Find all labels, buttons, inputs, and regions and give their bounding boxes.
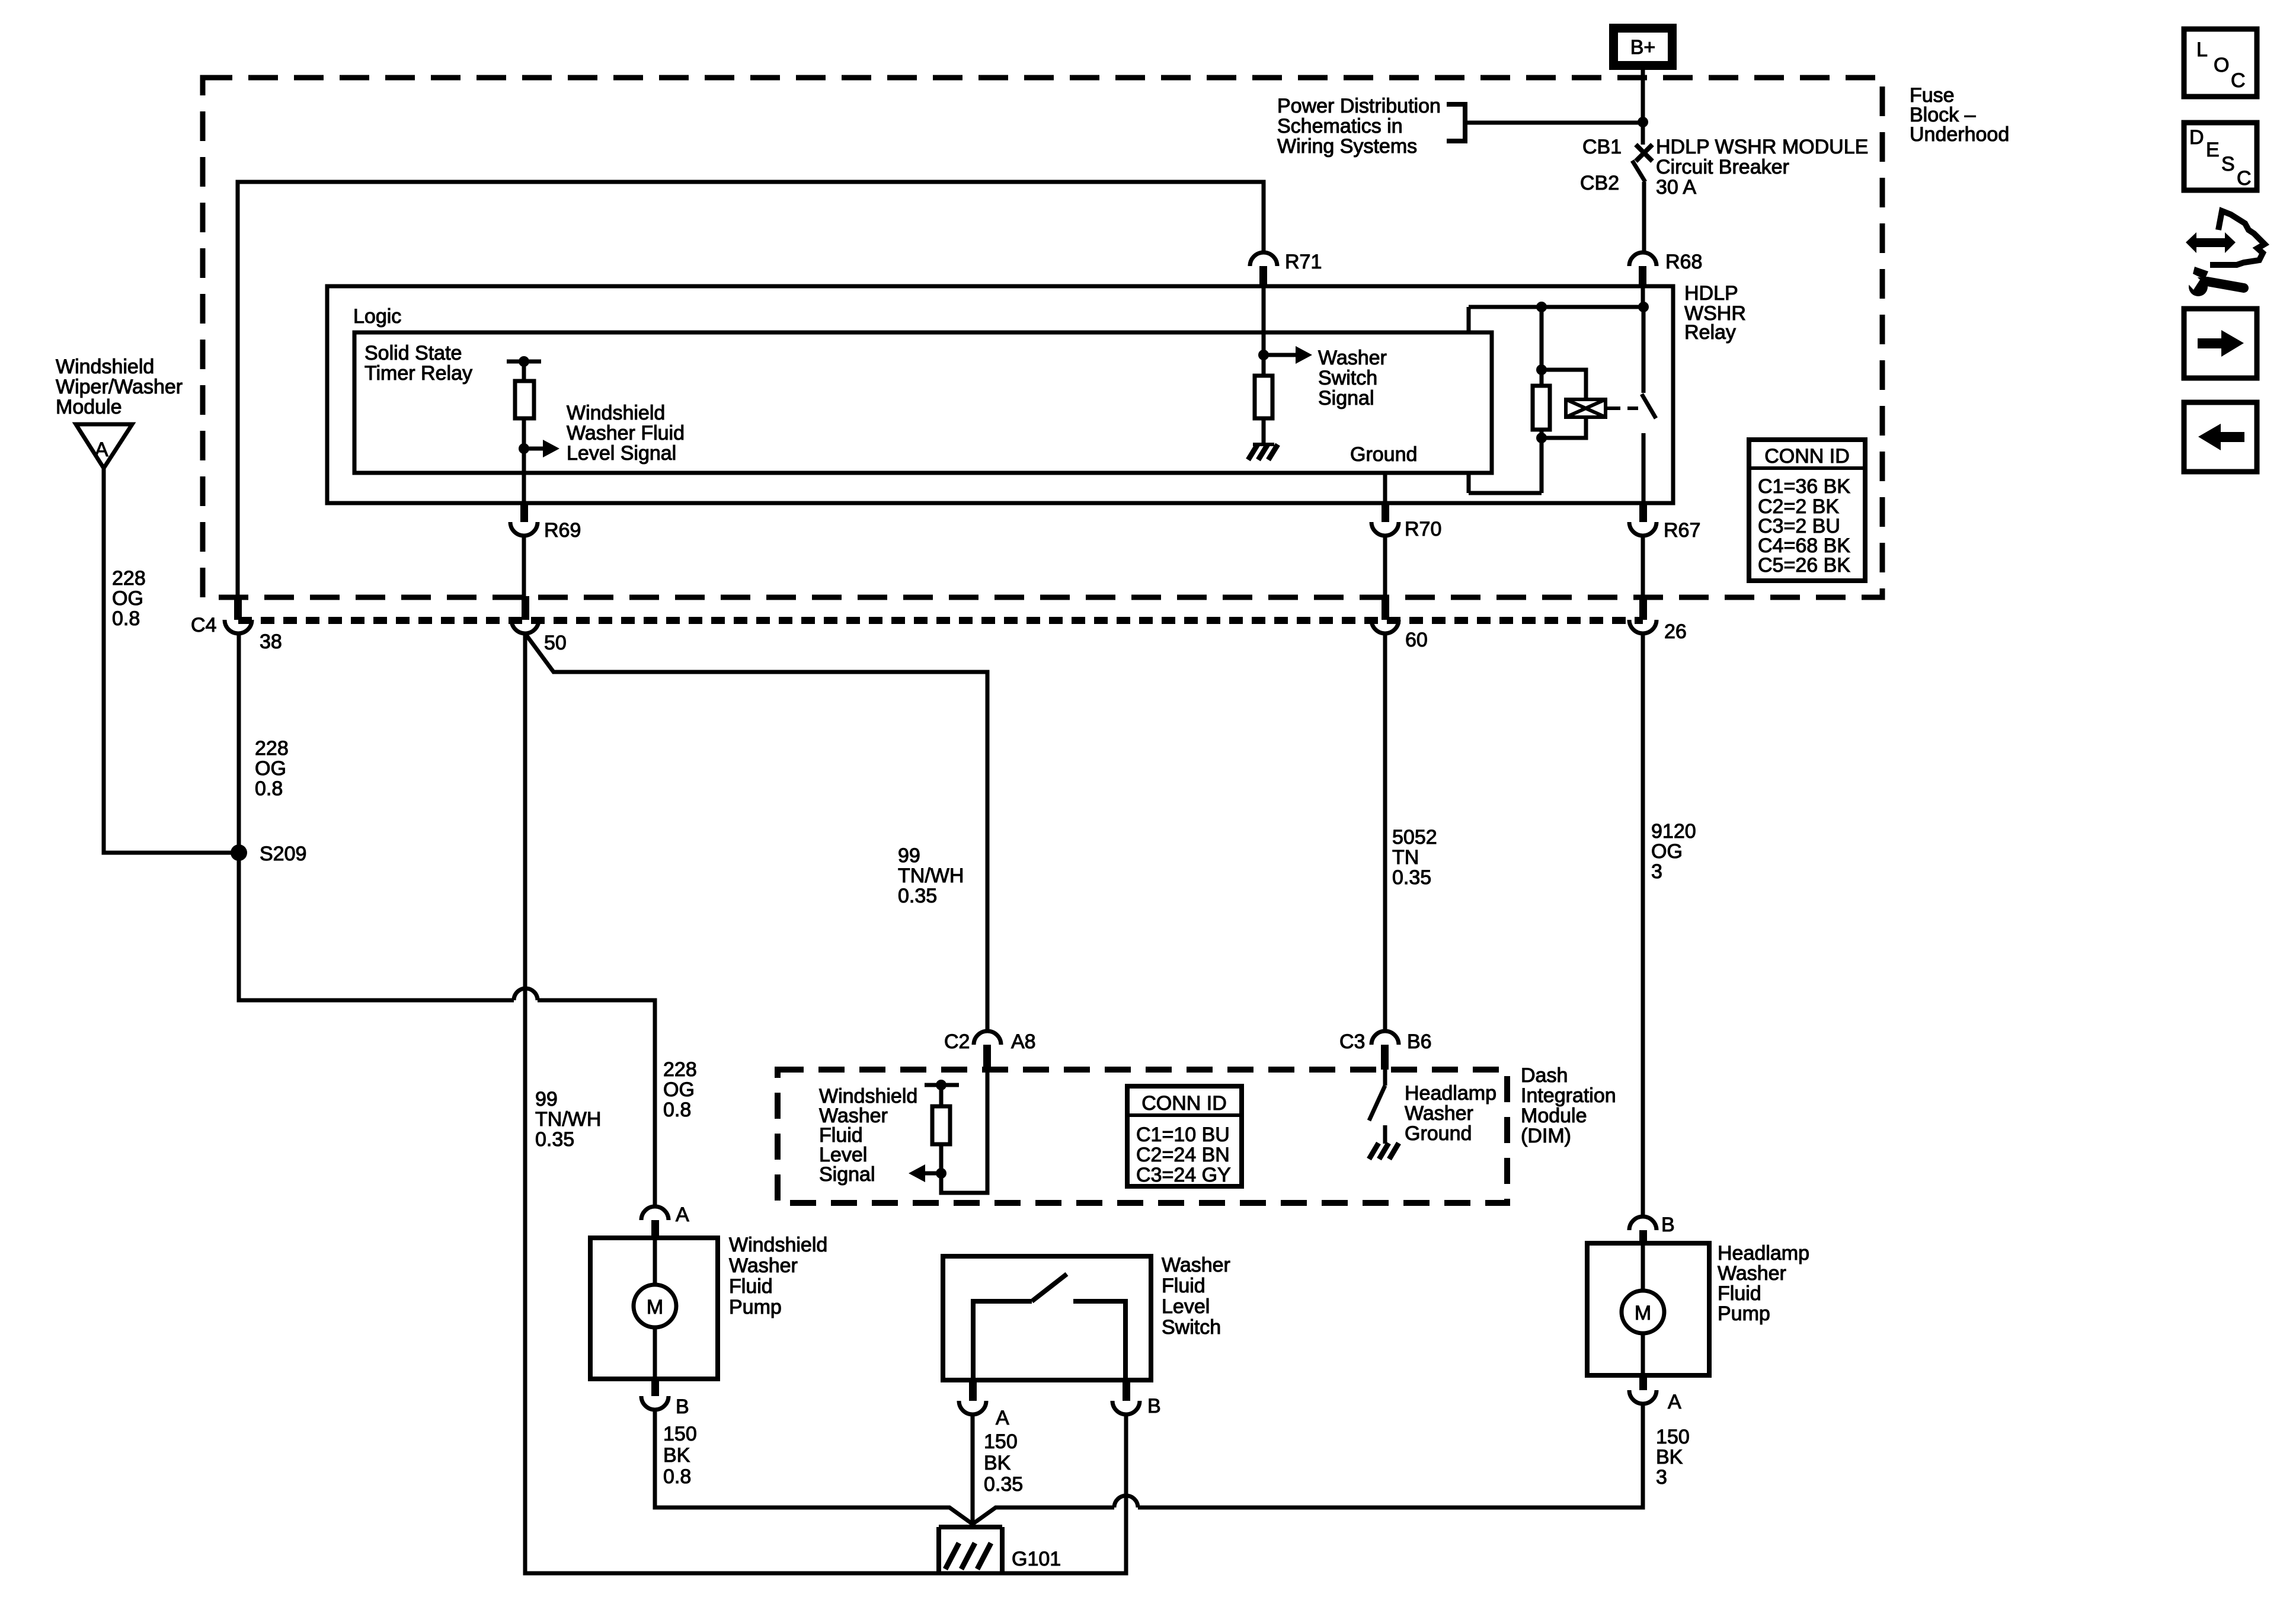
icon wrench with arrows [2182, 211, 2265, 296]
svg-text:Washer: Washer [1162, 1254, 1230, 1276]
wire triangle to S209 [104, 468, 239, 853]
node windshield washer fluid level signal [519, 443, 529, 454]
wire WW pump B to ground run [655, 1410, 1114, 1524]
svg-text:(DIM): (DIM) [1521, 1125, 1571, 1147]
wire timer T-bar [507, 356, 541, 381]
wire 50 down to bottom and level switch B [525, 633, 1126, 1573]
wire C2 internal [941, 1070, 987, 1193]
node bracket right [1638, 302, 1649, 312]
node bracket left [1536, 302, 1547, 312]
svg-text:228: 228 [112, 567, 146, 590]
wire 60 down to C3 B6 [1383, 633, 1387, 1031]
connector R70 [1371, 501, 1441, 540]
svg-text:BK: BK [1656, 1446, 1683, 1468]
svg-text:Logic: Logic [353, 305, 401, 328]
motor M windshield washer pump [634, 1285, 676, 1327]
label HDLP WSHR MODULE Circuit Breaker 30 A [1656, 136, 1868, 199]
svg-text:B+: B+ [1630, 36, 1656, 59]
label 150 BK 0.8 [663, 1423, 697, 1488]
svg-text:A: A [1668, 1391, 1681, 1413]
svg-text:E: E [2206, 139, 2220, 161]
svg-text:CONN ID: CONN ID [1141, 1092, 1227, 1115]
connector pin 50 [511, 596, 567, 654]
svg-text:C3=24 GY: C3=24 GY [1136, 1164, 1231, 1186]
svg-text:R71: R71 [1285, 251, 1322, 273]
svg-text:0.35: 0.35 [898, 885, 937, 907]
svg-text:99: 99 [898, 844, 920, 867]
CONN ID table DIM [1127, 1086, 1242, 1186]
svg-text:Wiring Systems: Wiring Systems [1277, 135, 1417, 158]
label CB1 [1582, 136, 1622, 158]
svg-text:B: B [676, 1395, 689, 1418]
svg-text:BK: BK [663, 1444, 690, 1467]
relay linkage dashes [1606, 406, 1638, 410]
connector B windshield washer pump [641, 1379, 689, 1418]
svg-text:C: C [2231, 69, 2246, 92]
svg-text:Power Distribution: Power Distribution [1277, 95, 1441, 117]
svg-text:S209: S209 [260, 843, 306, 865]
wire ground contact stub [1383, 1125, 1387, 1144]
svg-text:Wiper/Washer: Wiper/Washer [56, 376, 183, 398]
wire hop over 99 wire [514, 988, 538, 1000]
svg-text:C1=36 BK: C1=36 BK [1758, 475, 1850, 498]
svg-text:Switch: Switch [1162, 1316, 1221, 1339]
svg-text:0.35: 0.35 [984, 1473, 1023, 1496]
washer fluid level switch box [943, 1256, 1151, 1380]
label 228 OG 0.8 (mid) [255, 737, 289, 800]
svg-text:Signal: Signal [819, 1163, 875, 1186]
label Windshield Wiper/Washer Module [56, 356, 183, 418]
motor M headlamp washer pump [1622, 1291, 1664, 1333]
connector R68 [1629, 251, 1702, 287]
wire coil branch top [1542, 370, 1586, 399]
svg-text:HDLP: HDLP [1684, 282, 1738, 305]
svg-text:228: 228 [255, 737, 289, 760]
svg-text:Module: Module [56, 396, 122, 418]
svg-text:R68: R68 [1665, 251, 1702, 273]
svg-text:Relay: Relay [1684, 321, 1736, 344]
svg-text:60: 60 [1405, 629, 1428, 651]
node relay resistor bottom [1536, 433, 1547, 443]
svg-text:C4: C4 [191, 614, 216, 636]
icon arrow right [2184, 309, 2257, 378]
svg-text:Pump: Pump [729, 1296, 782, 1318]
svg-text:Washer: Washer [729, 1254, 798, 1277]
icon LOC [2184, 29, 2257, 97]
svg-text:S: S [2221, 153, 2235, 175]
CONN ID table fuse block [1749, 440, 1865, 581]
node power junction [1638, 117, 1648, 127]
svg-text:0.8: 0.8 [255, 777, 283, 800]
wire ground to R70 [1383, 474, 1387, 504]
svg-text:Switch: Switch [1318, 367, 1377, 389]
label HDLP WSHR Relay [1684, 282, 1746, 344]
label Windshield Washer Fluid Level Signal (DIM) [819, 1085, 917, 1186]
svg-text:Pump: Pump [1718, 1302, 1770, 1325]
resistor DIM fluid level [932, 1106, 950, 1144]
svg-text:Windshield: Windshield [56, 356, 154, 378]
svg-text:C3: C3 [1339, 1030, 1365, 1053]
label Windshield Washer Fluid Pump [729, 1234, 827, 1318]
svg-text:G101: G101 [1012, 1548, 1061, 1570]
node washer switch signal [1258, 350, 1269, 360]
svg-text:99: 99 [535, 1088, 558, 1110]
wire node to resistor [1262, 355, 1266, 376]
connector A windshield washer pump [641, 1204, 689, 1238]
svg-text:0.8: 0.8 [663, 1099, 691, 1121]
label Washer Switch Signal [1318, 347, 1387, 409]
wire motor to pump bottom [653, 1327, 657, 1379]
switch headlamp washer ground blade [1369, 1086, 1385, 1121]
ground G101 [939, 1527, 1061, 1571]
wire corner to pump A [538, 1000, 655, 1206]
label Washer Fluid Level Switch [1162, 1254, 1230, 1339]
svg-text:Headlamp: Headlamp [1405, 1082, 1496, 1105]
svg-text:C2: C2 [944, 1030, 970, 1053]
label Headlamp Washer Fluid Pump [1718, 1242, 1809, 1325]
svg-text:Signal: Signal [1318, 387, 1374, 409]
svg-text:Washer: Washer [1318, 347, 1387, 369]
label Power Distribution Schematics in Wiring Systems [1277, 95, 1441, 158]
connector A headlamp washer pump [1629, 1375, 1681, 1413]
wire 50 branch to C2 A8 [525, 633, 987, 1031]
svg-text:3: 3 [1651, 860, 1662, 883]
connector R71 [1250, 251, 1322, 287]
connector pin 60 [1371, 596, 1428, 651]
svg-text:B6: B6 [1407, 1030, 1432, 1053]
wire timer resistor down to R69 [522, 418, 526, 504]
relay module outer box [327, 286, 1673, 503]
svg-text:38: 38 [260, 630, 282, 653]
wire R69 to 50 [522, 536, 526, 596]
svg-text:150: 150 [984, 1430, 1018, 1453]
svg-text:D: D [2189, 126, 2204, 149]
svg-text:A: A [676, 1204, 689, 1226]
label Dash Integration Module (DIM) [1521, 1064, 1616, 1147]
wire relay resistor bottom [1540, 430, 1544, 493]
connector C3 B6 [1339, 1030, 1432, 1070]
connector B washer fluid level switch [1112, 1380, 1161, 1417]
svg-text:26: 26 [1664, 620, 1687, 643]
label Solid State Timer Relay [364, 342, 472, 385]
label Windshield Washer Fluid Level Signal [567, 402, 685, 465]
svg-text:Schematics in: Schematics in [1277, 115, 1403, 137]
resistor relay coil shunt [1533, 386, 1550, 430]
svg-text:Washer: Washer [1405, 1102, 1473, 1125]
svg-text:R70: R70 [1405, 518, 1441, 540]
label Fuse Block - Underhood [1910, 84, 2009, 146]
wire DIM resistor top T-bar [925, 1080, 959, 1106]
resistor solid state timer [515, 381, 534, 418]
label 150 BK 3 [1656, 1426, 1690, 1489]
logic inner box [354, 332, 1492, 473]
svg-text:30 A: 30 A [1656, 176, 1696, 199]
connector pin 26 [1629, 596, 1687, 643]
svg-text:OG: OG [112, 587, 143, 610]
circuit breaker CB1 CB2 contact X [1636, 145, 1652, 161]
svg-text:Windshield: Windshield [729, 1234, 827, 1256]
svg-text:L: L [2196, 39, 2208, 61]
svg-text:Integration: Integration [1521, 1084, 1616, 1107]
arrow DIM fluid level signal [909, 1164, 941, 1182]
svg-text:Washer Fluid: Washer Fluid [567, 422, 685, 444]
svg-text:OG: OG [663, 1078, 695, 1101]
connector R69 [510, 501, 581, 542]
svg-text:Ground: Ground [1350, 443, 1417, 466]
wire power distribution link [1465, 121, 1643, 125]
ground (DIM internal) [1369, 1143, 1399, 1159]
label 228 OG 0.8 (left) [112, 567, 146, 630]
arrow washer switch signal [1264, 346, 1312, 364]
svg-text:C5=26 BK: C5=26 BK [1758, 554, 1850, 577]
module triangle A [76, 424, 132, 468]
svg-text:TN/WH: TN/WH [898, 865, 964, 887]
wire level switch A to G101 [971, 1414, 975, 1524]
svg-text:A: A [95, 438, 108, 461]
svg-text:150: 150 [663, 1423, 697, 1445]
svg-text:Fluid: Fluid [1162, 1275, 1205, 1297]
svg-text:A8: A8 [1011, 1030, 1036, 1053]
wire hop over switch B wire [1114, 1496, 1138, 1507]
terminal B+ [1609, 24, 1677, 70]
svg-text:5052: 5052 [1392, 826, 1437, 849]
relay switch blade [1642, 394, 1656, 418]
svg-text:TN/WH: TN/WH [535, 1108, 601, 1131]
label 228 OG 0.8 (pump feed) [663, 1058, 697, 1121]
svg-text:C2=24 BN: C2=24 BN [1136, 1144, 1230, 1166]
label Logic [353, 305, 401, 328]
svg-text:BK: BK [984, 1452, 1011, 1474]
wire HL motor to pump bottom [1641, 1333, 1645, 1375]
svg-text:Circuit Breaker: Circuit Breaker [1656, 156, 1789, 178]
resistor washer switch signal [1255, 376, 1272, 418]
wire C4 38 down through S209 to corner [239, 633, 514, 1000]
wire C3 internal [1383, 1070, 1387, 1086]
label CB2 [1580, 172, 1619, 194]
wire R68 stub to bracket [1641, 287, 1645, 307]
svg-text:Module: Module [1521, 1105, 1587, 1127]
connector C4 pin 38 [191, 596, 282, 653]
fuse block dashed border (Fuse Block - Underhood) [203, 78, 1882, 597]
connector B headlamp washer pump [1629, 1214, 1675, 1244]
svg-text:Dash: Dash [1521, 1064, 1568, 1087]
svg-text:Level: Level [1162, 1295, 1210, 1318]
switch washer fluid level [973, 1274, 1125, 1380]
svg-text:HDLP WSHR MODULE: HDLP WSHR MODULE [1656, 136, 1868, 158]
svg-text:Fluid: Fluid [1718, 1282, 1761, 1305]
svg-text:TN: TN [1392, 846, 1419, 869]
wire HL pump top to motor [1641, 1243, 1645, 1291]
node relay resistor top [1536, 364, 1547, 375]
wire resistor to ground [1262, 418, 1266, 444]
svg-text:R67: R67 [1664, 519, 1700, 542]
wire CB to R68 [1642, 182, 1646, 252]
icon DESC [2184, 123, 2257, 190]
svg-text:OG: OG [255, 757, 286, 780]
svg-text:Headlamp: Headlamp [1718, 1242, 1809, 1265]
svg-text:Level Signal: Level Signal [567, 442, 676, 465]
svg-text:Fluid: Fluid [729, 1275, 773, 1298]
svg-text:228: 228 [663, 1058, 697, 1081]
wire pump top to motor [653, 1238, 657, 1285]
wire 26 down to HL pump B [1641, 633, 1645, 1217]
svg-text:Washer: Washer [1718, 1262, 1786, 1285]
label Headlamp Washer Ground [1405, 1082, 1496, 1145]
headlamp washer fluid pump box [1587, 1243, 1709, 1375]
label 99 TN/WH 0.35 (left) [535, 1088, 601, 1151]
DIM dashed box [778, 1070, 1507, 1203]
connector C2 A8 [944, 1030, 1036, 1070]
svg-text:150: 150 [1656, 1426, 1690, 1448]
connector R67 [1629, 501, 1700, 542]
svg-text:B: B [1147, 1395, 1161, 1417]
svg-text:CONN ID: CONN ID [1764, 445, 1850, 468]
label 150 BK 0.35 [984, 1430, 1023, 1496]
label 9120 OG 3 [1651, 820, 1696, 883]
relay switch top contact [1642, 307, 1646, 393]
wire B+ feed down [1641, 70, 1645, 145]
svg-text:0.8: 0.8 [663, 1465, 691, 1488]
svg-text:A: A [996, 1407, 1009, 1429]
svg-text:O: O [2214, 54, 2229, 76]
splice S209 [231, 843, 306, 865]
icon arrow left [2184, 402, 2257, 472]
wire ground run to HL pump A [1138, 1404, 1643, 1507]
wire R70 to 60 [1383, 536, 1387, 596]
label Ground [1350, 443, 1417, 466]
svg-text:Windshield: Windshield [567, 402, 665, 424]
ground (logic internal) [1248, 444, 1278, 460]
dotted connector line C4 [238, 617, 1643, 624]
svg-text:0.8: 0.8 [112, 607, 140, 630]
bracket (reference callout) [1447, 104, 1465, 141]
relay coil U1 [1566, 399, 1606, 417]
svg-text:Timer Relay: Timer Relay [364, 362, 472, 385]
svg-text:9120: 9120 [1651, 820, 1696, 843]
connector A washer fluid level switch [959, 1380, 1009, 1429]
svg-text:OG: OG [1651, 840, 1683, 863]
svg-text:CB1: CB1 [1582, 136, 1622, 158]
relay switch bottom contact to R67 [1642, 433, 1646, 504]
wire bracket to relay resistor [1540, 307, 1544, 386]
svg-text:C1=10 BU: C1=10 BU [1136, 1124, 1230, 1146]
svg-text:Solid State: Solid State [364, 342, 462, 364]
node DIM arrow [936, 1168, 946, 1179]
svg-text:0.35: 0.35 [1392, 866, 1431, 889]
label 99 TN/WH 0.35 (C2 feed) [898, 844, 964, 907]
svg-text:Ground: Ground [1405, 1122, 1472, 1145]
label 5052 TN 0.35 [1392, 826, 1437, 889]
wire coil branch bottom [1542, 417, 1586, 438]
svg-text:50: 50 [544, 632, 567, 654]
svg-text:B: B [1661, 1214, 1675, 1236]
svg-text:CB2: CB2 [1580, 172, 1619, 194]
svg-text:3: 3 [1656, 1466, 1667, 1489]
relay bracket [1469, 307, 1643, 493]
arrow windshield washer fluid level signal [524, 440, 559, 457]
svg-text:R69: R69 [544, 519, 581, 542]
circuit breaker blade [1632, 161, 1645, 182]
wire R67 to 26 [1641, 536, 1645, 596]
svg-text:M: M [1635, 1302, 1651, 1324]
svg-text:Underhood: Underhood [1910, 123, 2009, 146]
wire top feed from node to R71 and down to C4 [238, 182, 1264, 596]
svg-text:M: M [647, 1296, 663, 1318]
wire R71 into logic box [1262, 287, 1266, 355]
svg-text:C: C [2237, 167, 2252, 190]
windshield washer fluid pump box [590, 1238, 718, 1379]
svg-text:0.35: 0.35 [535, 1128, 574, 1151]
